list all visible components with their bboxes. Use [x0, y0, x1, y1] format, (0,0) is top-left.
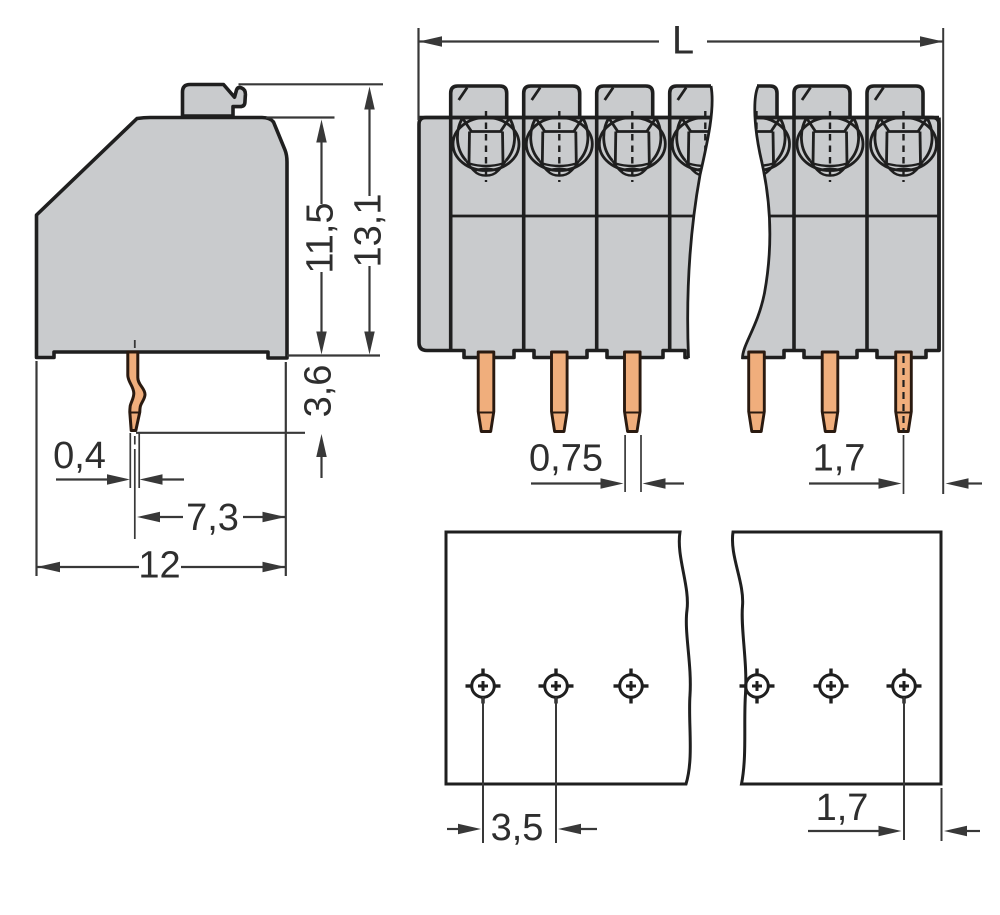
- clamp opening unit 6: [797, 118, 863, 176]
- pin 1 shoulder line: [480, 412, 493, 414]
- svg-text:11,5: 11,5: [300, 202, 342, 273]
- unit boundary line 2: [522, 118, 526, 352]
- clamp opening unit 2: [526, 118, 592, 176]
- svg-text:1,7: 1,7: [816, 787, 869, 829]
- unit 3 tab notch mark: [605, 88, 614, 101]
- dimension 7,3 line: [137, 512, 160, 523]
- unit boundary line 6: [792, 118, 796, 352]
- right extension line for 7,3 and 12: [285, 362, 287, 576]
- clamp opening unit 7: [871, 118, 937, 176]
- drill hole 3: [614, 669, 649, 704]
- extension line from tab top (13,1): [239, 83, 384, 85]
- unit 1 tab notch mark: [459, 88, 468, 101]
- drill hole 4: [740, 669, 775, 704]
- unit 2 tab notch mark: [532, 88, 541, 101]
- hole 2 extension line: [555, 697, 557, 843]
- solder pin front 4: [749, 352, 765, 432]
- drill hole 6: [887, 669, 922, 704]
- dimension 3,5 arrows: [447, 828, 459, 830]
- pin 2 shoulder line: [553, 412, 566, 414]
- unit 6 tab notch mark: [802, 88, 811, 101]
- opening centerline unit 6: [829, 111, 831, 182]
- svg-text:3,6: 3,6: [298, 365, 340, 418]
- terminal unit 3 tab: [597, 86, 653, 118]
- dimension 1,7 (pcb) arrows: [808, 830, 879, 832]
- dimension L line: [419, 40, 659, 42]
- pin 3 shoulder line: [626, 412, 639, 414]
- solder pin front 3: [625, 352, 641, 432]
- svg-text:L: L: [672, 19, 694, 63]
- solder pin front 2: [552, 352, 568, 432]
- drill hole 5: [814, 669, 849, 704]
- opening centerline unit 4: [704, 111, 706, 182]
- unit 7 tab notch mark: [875, 88, 884, 101]
- dimension 11,5 vertical line: [320, 129, 322, 204]
- terminal unit 6 tab: [794, 86, 850, 118]
- pin 6 shoulder line: [897, 412, 910, 414]
- terminal unit 4 tab: [670, 86, 726, 118]
- extension line at pin tip level (3,6): [136, 432, 305, 434]
- unit boundary line 5: [719, 118, 723, 352]
- drill hole 2: [539, 669, 574, 704]
- svg-text:13,1: 13,1: [348, 194, 390, 268]
- solder pin front 5: [822, 352, 838, 432]
- L right extension line (shared with 1,7): [942, 28, 944, 494]
- svg-text:0,4: 0,4: [53, 435, 106, 477]
- pin centerline extension (7,3): [134, 436, 136, 445]
- pin 6 dashed centerline: [902, 356, 904, 432]
- svg-text:3,5: 3,5: [491, 807, 544, 849]
- side view: housing body: [37, 118, 288, 359]
- unit 5 tab notch mark: [729, 88, 738, 101]
- dimension 0,4 arrows: [56, 478, 108, 480]
- front face parting line: [451, 215, 939, 218]
- side pin centerline dash above: [134, 340, 136, 348]
- unit boundary line 4: [668, 118, 672, 352]
- break wavy edge left fragment: [688, 86, 712, 358]
- break wavy edge right fragment: [742, 87, 769, 360]
- svg-text:12: 12: [138, 545, 180, 587]
- L left extension line: [417, 28, 419, 120]
- unit 4 tab notch mark: [678, 88, 687, 101]
- side view: solder pin with s-bend: [128, 352, 145, 431]
- front slab top edge line: [419, 116, 939, 120]
- pcb right edge extension line: [941, 788, 943, 841]
- 0,75 extension lines at pin 3: [624, 435, 626, 492]
- clamp opening unit 1: [453, 118, 519, 176]
- front slab right edge: [937, 118, 941, 352]
- clamp opening unit 4: [672, 118, 738, 176]
- left extension line for 12: [35, 361, 37, 576]
- terminal unit 1 tab: [451, 86, 507, 118]
- svg-text:0,75: 0,75: [529, 438, 603, 480]
- opening centerline unit 7: [902, 111, 904, 182]
- terminal unit 7 tab: [867, 86, 923, 118]
- hole 1 extension line: [482, 697, 484, 843]
- pin 5 shoulder line: [824, 412, 837, 414]
- hole 6 extension line: [903, 697, 905, 840]
- drill hole 1: [466, 669, 501, 704]
- unit boundary line 7: [865, 118, 869, 352]
- side pin shoulder line: [130, 412, 140, 414]
- extension line from body top (11,5): [266, 116, 335, 118]
- terminal unit 2 tab: [524, 86, 580, 118]
- dimension 12 line: [37, 562, 60, 573]
- pin edge extension lines (0,4): [129, 433, 131, 488]
- solder pin front 1: [478, 352, 494, 432]
- side view: latch tab on top: [183, 85, 246, 117]
- svg-text:1,7: 1,7: [813, 438, 866, 480]
- opening centerline unit 3: [631, 111, 633, 182]
- pcb drilling plan right board: [732, 532, 941, 784]
- opening centerline unit 1: [485, 111, 487, 182]
- clamp opening unit 5: [724, 118, 790, 176]
- svg-text:7,3: 7,3: [186, 497, 239, 539]
- pin 4 shoulder line: [750, 412, 763, 414]
- unit boundary line 1: [449, 118, 453, 352]
- dimension 3,6 arrow and label: [316, 434, 327, 457]
- dimension 0,75 arrows: [531, 482, 601, 484]
- dimension 13,1 vertical line: [368, 97, 370, 196]
- unit boundary line 3: [595, 118, 599, 352]
- opening centerline unit 5: [755, 111, 757, 182]
- pin 6 centerline extension: [903, 435, 905, 494]
- pcb drilling plan left board: [446, 532, 690, 784]
- terminal unit 5 tab: [721, 86, 777, 118]
- solder pin front 6: [896, 352, 912, 432]
- dimension 1,7 (front) arrows: [809, 482, 879, 484]
- clamp opening unit 3: [599, 118, 665, 176]
- front view: housing slab fill: [419, 118, 939, 358]
- extension line at body bottom: [287, 354, 380, 356]
- opening centerline unit 2: [558, 111, 560, 182]
